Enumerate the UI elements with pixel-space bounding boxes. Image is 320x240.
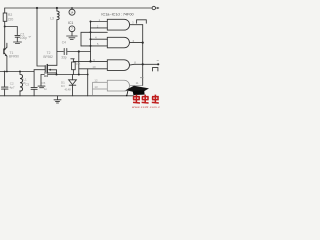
svg-text:10: 10	[92, 65, 96, 69]
resistor R mid box	[72, 62, 76, 70]
svg-text:14: 14	[70, 10, 74, 14]
capacitor C4	[63, 48, 65, 54]
labels	[8, 10, 139, 91]
wire pin1	[91, 21, 108, 23]
svg-text:IC1a~IC1d : 74F00: IC1a~IC1d : 74F00	[101, 12, 133, 16]
wire output C to terminal	[130, 63, 159, 66]
pin 14 circle	[69, 9, 75, 15]
pulse glyph right	[153, 68, 158, 71]
svg-text:12: 12	[94, 78, 98, 82]
watermark logo	[126, 86, 163, 109]
wire W2 feedback	[81, 32, 107, 46]
svg-text:1n: 1n	[44, 87, 48, 91]
svg-text:10k: 10k	[76, 61, 81, 65]
node R2/C1/base junction	[4, 26, 6, 28]
capacitor C2	[4, 72, 6, 88]
pin 7 circle	[69, 26, 75, 32]
node top rail dot 1	[36, 7, 38, 9]
capacitor C3	[33, 72, 35, 88]
svg-text:BF982: BF982	[43, 55, 53, 59]
svg-text:4p7: 4p7	[10, 85, 15, 89]
wire to C1	[5, 27, 18, 36]
inductor L3	[56, 8, 58, 11]
cap board	[126, 86, 150, 94]
ground under C1	[14, 41, 22, 43]
svg-text:BFR90: BFR90	[9, 55, 19, 59]
node V1 dots	[90, 21, 92, 23]
transistor T2	[44, 66, 46, 72]
svg-text:IC1: IC1	[68, 21, 73, 25]
diode D1	[72, 75, 74, 80]
svg-text:100p: 100p	[20, 36, 27, 40]
node 14 circle stub	[71, 7, 73, 9]
wire pin10 line	[79, 68, 108, 70]
wire pin5	[81, 45, 107, 47]
capacitor C1	[15, 34, 20, 36]
node C2 junction	[4, 71, 6, 73]
wire G1 lead	[34, 70, 45, 72]
wire source bypass line	[41, 74, 88, 76]
wire pin2	[91, 27, 108, 29]
resistor R mid bar	[71, 58, 74, 60]
wire pin4	[91, 38, 108, 40]
wire output B	[130, 42, 143, 44]
wire output bus vertical	[142, 25, 144, 86]
wire C1 to ground	[16, 37, 18, 42]
transistor T1	[3, 49, 5, 54]
svg-text:4148: 4148	[65, 87, 72, 91]
cap base	[133, 90, 145, 95]
node emitter junction	[6, 71, 8, 73]
svg-text:C3: C3	[25, 82, 29, 86]
wire G2 bias vertical	[37, 8, 45, 66]
gate IC1d light	[93, 78, 144, 96]
inductor L1	[19, 72, 21, 75]
svg-text:L3: L3	[50, 17, 54, 21]
wire input bus V1	[90, 22, 92, 62]
node L1 junction	[19, 71, 21, 73]
svg-text:13: 13	[94, 85, 98, 89]
svg-text:220: 220	[8, 17, 14, 21]
wire output A	[130, 24, 143, 26]
node top-left corner	[4, 8, 6, 13]
wire pin9 line	[73, 60, 107, 62]
gate IC1c	[107, 60, 129, 71]
node bias dot	[78, 74, 80, 76]
wire C4 to bus	[68, 51, 91, 53]
ground stub left of C5	[40, 75, 42, 86]
wire L3 to drain	[56, 20, 58, 52]
wire drain node to C4	[57, 51, 64, 53]
wire dot down	[78, 52, 80, 75]
gate IC1b	[107, 37, 129, 48]
svg-text:33p: 33p	[61, 56, 67, 60]
ground under pin7	[67, 35, 78, 37]
resistor R2	[3, 13, 7, 21]
node source dot	[56, 74, 58, 76]
red char 1	[133, 95, 159, 104]
wire pin10 ground vertical	[87, 69, 89, 96]
svg-text:C4: C4	[62, 41, 66, 45]
wire input line bottom-left	[0, 71, 34, 73]
ground symbol on rail	[57, 96, 59, 100]
faint mark near C1	[28, 36, 31, 38]
tassel	[127, 91, 128, 95]
node C4 wire dot	[78, 50, 80, 52]
wire top supply rail	[5, 7, 152, 9]
capacitor C5 inline	[44, 73, 46, 77]
wire bottom rail	[0, 95, 134, 97]
wire base feed	[4, 27, 6, 50]
wire R2 bottom	[4, 21, 6, 26]
svg-text:11: 11	[136, 81, 139, 85]
gate IC1a	[107, 19, 129, 30]
svg-text:7: 7	[71, 27, 73, 31]
svg-text:www.ccdz.com.cn: www.ccdz.com.cn	[132, 105, 160, 109]
terminal top right	[152, 6, 155, 9]
wire T1 emitter down	[6, 56, 8, 71]
node top rail dot 2	[56, 7, 58, 9]
pulse glyph top	[137, 20, 147, 23]
svg-text:C5: C5	[42, 81, 46, 85]
node pin10 dot	[87, 74, 89, 76]
